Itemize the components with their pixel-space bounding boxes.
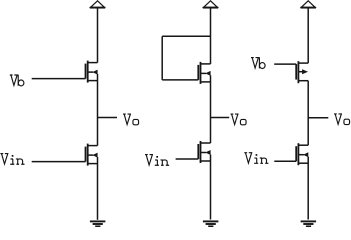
wire Vin to M1 gate (circuit 1): [32, 161, 86, 163]
label Vb (circuit 1): [10, 75, 24, 86]
ground (circuit 1): [90, 221, 106, 226]
wire M2 drain to M1 drain (circuit 3): [307, 81, 309, 146]
transistor M2 (NMOS cascode, circuit 1): [86, 61, 98, 83]
wire M2 source to M1 drain (circuit 2): [210, 75, 212, 143]
wire diode connection gate-drain loop (circuit 2): [162, 36, 210, 80]
wire M1 source to ground (circuit 1): [97, 157, 99, 220]
ground (circuit 2): [203, 221, 219, 226]
transistor M1 (NMOS input, circuit 2): [198, 141, 210, 163]
wire Vin to M1 gate (circuit 3): [274, 160, 296, 162]
label Vin (circuit 2): [145, 155, 169, 166]
VDD symbol circuit 3: [301, 1, 316, 8]
wire M2 source to M1 drain (circuit 1): [97, 74, 99, 146]
wire VDD to M2 drain (circuit 2): [210, 8, 212, 64]
transistor M2 (PMOS load, circuit 3): [296, 61, 308, 83]
label Vb (circuit 3): [251, 58, 265, 69]
node Vo tap wire (circuit 3): [308, 117, 328, 119]
wire VDD to M2 source (circuit 3): [307, 8, 309, 63]
label Vin (circuit 1): [0, 154, 24, 165]
wire VDD to M2 drain (circuit 1): [97, 8, 99, 63]
transistor M2 (NMOS diode-connected, circuit 2): [198, 62, 210, 84]
node Vo tap wire (circuit 1): [98, 117, 118, 119]
wire Vin to M1 gate (circuit 2): [176, 158, 199, 160]
label Vo (circuit 1): [123, 114, 139, 125]
VDD symbol circuit 2: [203, 1, 218, 8]
label Vo (circuit 2): [231, 114, 247, 125]
node Vo tap wire (circuit 2): [211, 117, 230, 119]
wire Vb to M2 gate (circuit 1): [32, 78, 86, 80]
label Vo (circuit 3): [334, 114, 350, 125]
transistor M1 (NMOS input, circuit 1): [86, 144, 98, 166]
wire M1 source to ground (circuit 2): [210, 155, 212, 220]
wire Vb to M2 gate (circuit 3): [274, 63, 296, 65]
VDD symbol circuit 1: [90, 1, 105, 8]
wire M1 source to ground (circuit 3): [307, 157, 309, 220]
label Vin (circuit 3): [244, 153, 268, 164]
ground (circuit 3): [301, 221, 317, 226]
transistor M1 (NMOS input, circuit 3): [296, 143, 308, 165]
